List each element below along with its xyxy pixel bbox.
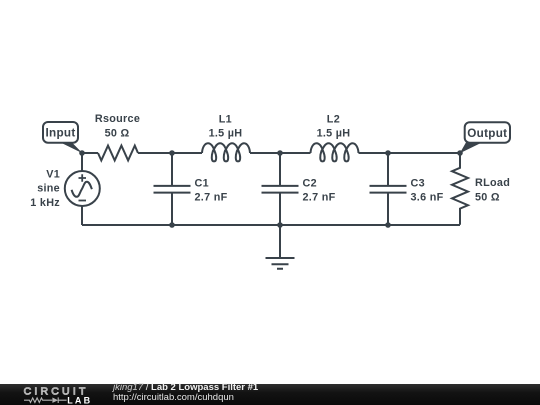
capacitor C1 (154, 153, 191, 225)
svg-text:1.5 µH: 1.5 µH (317, 128, 351, 140)
wire L2 to node E (359, 152, 461, 154)
svg-text:3.6 nF: 3.6 nF (411, 191, 444, 203)
svg-text:50 Ω: 50 Ω (475, 191, 500, 203)
svg-text:Input: Input (45, 127, 75, 140)
wire Rsource to L1 (138, 152, 202, 154)
wire bottom (82, 224, 460, 226)
footer attribution line 1 (113, 383, 258, 393)
footer bar (0, 384, 540, 405)
node A dot (79, 150, 85, 156)
V1 sine wave (72, 182, 92, 197)
capacitor C2 (262, 153, 299, 225)
input flag pointer (59, 142, 83, 154)
wire top: node A to Rsource (82, 152, 98, 154)
svg-text:C1: C1 (195, 178, 209, 190)
svg-text:2.7 nF: 2.7 nF (195, 191, 228, 203)
footer url line 2 (113, 393, 234, 403)
V1 minus sign (79, 200, 87, 202)
inductor L2 (311, 143, 359, 161)
inductor L1 (202, 143, 250, 161)
resistor RLoad (452, 153, 468, 225)
svg-text:Output: Output (467, 127, 507, 140)
svg-text:1 kHz: 1 kHz (30, 197, 60, 209)
svg-text:50 Ω: 50 Ω (105, 128, 130, 140)
source V1 circle (65, 171, 100, 206)
svg-text:L1: L1 (219, 114, 232, 126)
node B bottom dot (169, 222, 175, 228)
circuitlab logo (0, 384, 110, 405)
V1 plus sign (79, 174, 87, 182)
resistor Rsource (98, 146, 138, 161)
node D dot (385, 150, 391, 156)
logo schematic squiggle (24, 397, 67, 403)
ground (266, 225, 295, 269)
wire V1 top (81, 153, 83, 171)
svg-text:L2: L2 (327, 114, 340, 126)
wire L1 to L2 (250, 152, 311, 154)
wire V1 bottom (81, 207, 83, 226)
capacitor C3 (370, 153, 407, 225)
svg-text:1.5 µH: 1.5 µH (209, 128, 243, 140)
svg-text:2.7 nF: 2.7 nF (303, 191, 336, 203)
node B dot (169, 150, 175, 156)
svg-text:sine: sine (37, 182, 60, 194)
svg-text:Rsource: Rsource (95, 113, 140, 125)
svg-text:C3: C3 (411, 178, 425, 190)
node E dot (457, 150, 463, 156)
output flag pointer (460, 142, 484, 154)
node D bottom dot (385, 222, 391, 228)
input flag box (43, 122, 78, 143)
svg-text:RLoad: RLoad (475, 177, 510, 189)
svg-text:V1: V1 (46, 169, 60, 181)
svg-text:LAB: LAB (67, 396, 92, 405)
svg-text:C2: C2 (303, 178, 317, 190)
node C dot (277, 150, 283, 156)
ground node dot (277, 222, 283, 228)
output flag box (465, 122, 510, 143)
